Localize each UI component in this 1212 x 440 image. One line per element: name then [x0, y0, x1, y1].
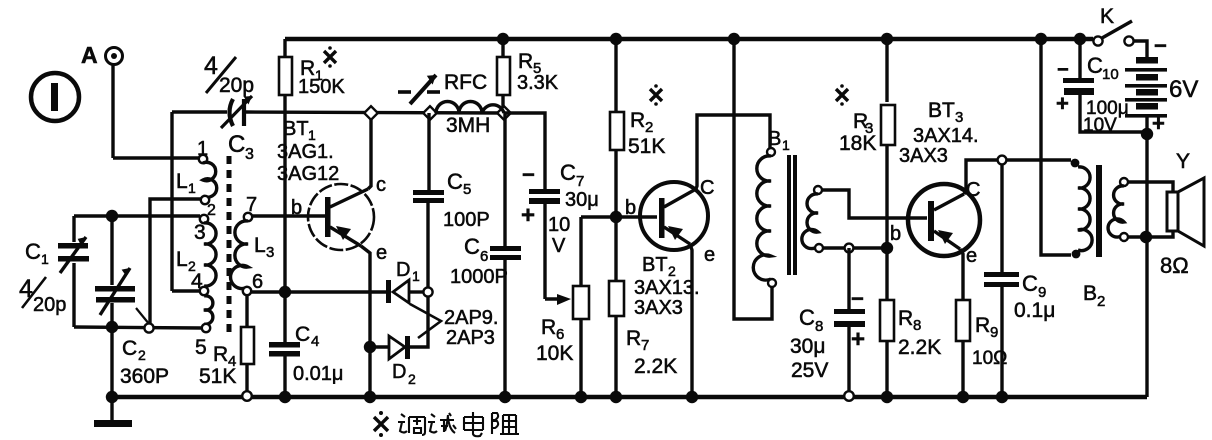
svg-text:7: 7 — [641, 337, 649, 354]
wire B1 secondary bottom line — [823, 246, 884, 249]
resistor R9 10 ohm — [956, 300, 1007, 397]
diode D2 2AP3 — [364, 296, 428, 387]
wire antenna node to L1 terminal 1 — [113, 156, 199, 159]
resistor R1 150K — [279, 39, 345, 292]
capacitor C1 variable — [19, 216, 89, 327]
inductor L1 — [176, 138, 217, 219]
diode D1 2AP9 — [251, 259, 424, 303]
capacitor C3 variable 4/20p — [204, 52, 254, 163]
node speaker return at battery rail — [1140, 231, 1152, 243]
svg-text:C: C — [464, 234, 480, 259]
wire C2 node down to ground bus — [110, 327, 113, 397]
inductor L3 with terminals 7 6 — [231, 194, 275, 295]
wire top bus — [285, 37, 1093, 41]
wire C4 column from R1 node — [283, 292, 286, 343]
svg-text:R: R — [898, 307, 913, 330]
transformer B1 core — [787, 155, 797, 275]
svg-text:L: L — [254, 234, 266, 257]
resistor R7 2.2K — [609, 217, 677, 397]
inductor RFC 3MH — [398, 71, 504, 137]
svg-text:360P: 360P — [120, 365, 169, 388]
svg-text:−: − — [851, 286, 864, 311]
transformer core dashed — [227, 156, 232, 338]
label pointer chevron for diodes — [410, 304, 498, 349]
wire BT1 emitter drop — [361, 246, 370, 397]
adjust mark R2 — [650, 84, 662, 106]
node C2 top junction — [106, 210, 118, 222]
resistor R8 2.2K — [880, 248, 941, 397]
svg-text:C: C — [25, 239, 41, 264]
svg-text:3AX14.: 3AX14. — [913, 125, 979, 147]
capacitor C2 variable 360P — [95, 216, 169, 388]
capacitor C10 100u electrolytic — [1056, 33, 1145, 136]
svg-text:2AP9.: 2AP9. — [444, 307, 498, 329]
node C2 bottom junction — [106, 321, 118, 333]
footnote text tiaoshi dianzu — [398, 412, 519, 436]
svg-text:R: R — [541, 316, 556, 339]
svg-text:C: C — [799, 305, 815, 330]
wire BT2 base line — [581, 215, 657, 218]
svg-text:Y: Y — [1176, 150, 1190, 173]
node BT2 emitter at bus — [686, 391, 698, 403]
svg-text:3: 3 — [955, 109, 963, 126]
svg-text:3AX13.: 3AX13. — [634, 277, 700, 299]
wire BT3 collector riser to B2 primary — [964, 160, 1071, 194]
capacitor C9 0.1u — [984, 164, 1055, 397]
svg-text:1000P: 1000P — [450, 266, 508, 288]
svg-text:B: B — [1083, 282, 1097, 305]
node R8 at bus — [881, 391, 893, 403]
svg-text:18K: 18K — [839, 132, 876, 155]
svg-text:0.1μ: 0.1μ — [1014, 299, 1055, 322]
svg-text:R: R — [213, 343, 228, 366]
svg-text:6: 6 — [480, 248, 488, 265]
svg-text:2.2K: 2.2K — [634, 355, 677, 378]
svg-text:b: b — [291, 197, 302, 219]
transformer B2 primary — [1071, 159, 1106, 310]
svg-text:51K: 51K — [199, 365, 236, 388]
wire C7 wiper arrow to R6 — [545, 294, 571, 305]
svg-text:C: C — [122, 337, 137, 360]
transistor BT2 3AX13 — [625, 177, 715, 319]
svg-text:B: B — [768, 128, 781, 150]
svg-text:3: 3 — [266, 244, 274, 261]
svg-text:30μ: 30μ — [565, 189, 599, 211]
svg-text:0.01μ: 0.01μ — [293, 363, 343, 385]
svg-text:150K: 150K — [298, 76, 345, 98]
resistor R2 51K — [610, 33, 666, 217]
ground — [94, 397, 132, 427]
node junction diamond RFC right — [497, 106, 511, 120]
svg-text:1: 1 — [197, 138, 208, 160]
inductor L2 with taps 3 4 5 — [176, 215, 216, 359]
svg-text:+: + — [851, 326, 865, 353]
svg-text:C: C — [1022, 271, 1038, 296]
svg-text:−: − — [1154, 33, 1167, 58]
svg-text:e: e — [966, 245, 977, 267]
svg-text:R: R — [626, 327, 641, 350]
svg-text:2: 2 — [138, 347, 146, 363]
svg-text:2AP3: 2AP3 — [446, 327, 495, 349]
svg-text:3: 3 — [194, 221, 206, 244]
svg-text:10: 10 — [548, 214, 570, 236]
svg-text:BT: BT — [642, 254, 668, 276]
svg-text:BT: BT — [283, 118, 309, 140]
svg-text:+: + — [1152, 111, 1165, 136]
wire collector line y112 — [172, 110, 227, 113]
capacitor C4 0.01u — [269, 323, 343, 397]
node L3 tap6 junction — [279, 286, 291, 298]
svg-text:1: 1 — [41, 251, 49, 267]
node B2 bus junction — [1035, 33, 1047, 45]
svg-text:R: R — [975, 314, 990, 337]
svg-text:+: + — [521, 202, 535, 229]
svg-text:9: 9 — [990, 324, 998, 341]
svg-text:30μ: 30μ — [790, 335, 825, 358]
wire B2 primary bottom to top bus — [1041, 39, 1071, 255]
svg-text:C: C — [966, 179, 980, 201]
svg-text:4: 4 — [191, 270, 203, 293]
svg-text:V: V — [552, 235, 566, 257]
svg-text:e: e — [704, 244, 715, 266]
wire BT2 emitter drop — [690, 244, 692, 397]
wire BT3 emitter drop — [960, 249, 963, 300]
svg-text:4: 4 — [19, 275, 33, 303]
wire C1 C2 bottom line to tap5 — [74, 327, 201, 328]
svg-text:C: C — [560, 160, 576, 185]
svg-text:20p: 20p — [219, 74, 254, 97]
wire BT2 collector riser to B1 primary — [696, 115, 770, 189]
transistor BT1 3AG1 — [252, 118, 387, 264]
capacitor C6 1000P — [450, 113, 521, 397]
svg-text:1: 1 — [188, 180, 196, 196]
svg-text:100P: 100P — [443, 209, 490, 231]
svg-text:7: 7 — [246, 194, 257, 216]
node R6 at bus — [575, 391, 587, 403]
svg-text:3MH: 3MH — [446, 114, 490, 137]
svg-text:b: b — [890, 223, 901, 245]
node R7 at bus — [610, 391, 622, 403]
svg-text:6: 6 — [252, 271, 263, 293]
resistor R4 51K — [199, 295, 254, 401]
svg-text:A: A — [81, 42, 98, 68]
svg-text:c: c — [376, 174, 386, 196]
node C9 tap open circle — [998, 156, 1007, 165]
svg-text:51K: 51K — [628, 135, 665, 158]
svg-text:−: − — [522, 162, 535, 187]
svg-text:20p: 20p — [33, 294, 66, 316]
wire bottom bus — [112, 395, 1147, 399]
svg-text:+: + — [1056, 91, 1069, 116]
wire B1 secondary top to BT3 base — [822, 190, 927, 218]
svg-text:5: 5 — [463, 181, 471, 198]
svg-text:R: R — [518, 50, 533, 73]
svg-text:7: 7 — [576, 173, 584, 190]
svg-text:3AX3: 3AX3 — [899, 145, 948, 167]
node C4 at bus — [279, 391, 291, 403]
node B1 bus junction — [728, 33, 740, 45]
node terminal2 drop open circle — [144, 323, 153, 332]
svg-text:3: 3 — [245, 146, 254, 163]
svg-text:2: 2 — [1097, 293, 1105, 310]
battery 6V — [1125, 33, 1198, 397]
wire BT1 collector riser — [368, 113, 371, 189]
svg-text:10V: 10V — [1083, 115, 1117, 136]
svg-text:e: e — [376, 242, 387, 264]
svg-text:6: 6 — [556, 326, 564, 343]
transformer B1 primary — [753, 128, 790, 287]
node R3 R8 junction — [881, 242, 893, 254]
transistor BT3 3AX14 — [890, 99, 980, 267]
wire B1 primary bottom to top bus — [734, 39, 772, 319]
node C8 tap open circle — [845, 244, 854, 253]
resistor R5 3.3K — [497, 33, 559, 108]
svg-text:3AX3: 3AX3 — [634, 297, 683, 319]
switch K — [1093, 5, 1133, 46]
svg-text:8: 8 — [913, 317, 921, 334]
loudspeaker Y 8ohm — [1128, 150, 1204, 278]
svg-text:25V: 25V — [791, 359, 828, 382]
svg-text:b: b — [625, 197, 636, 219]
svg-text:3AG1.: 3AG1. — [277, 141, 334, 163]
wire tap4 horizontal — [172, 289, 200, 292]
svg-text:C: C — [700, 177, 714, 199]
svg-text:−: − — [1057, 59, 1069, 81]
node R9 at bus — [957, 391, 969, 403]
node C6 at bus — [499, 391, 511, 403]
wire terminal2 to x150 drop — [150, 199, 202, 328]
wire node A riser x172 (C3 line to tap4) — [170, 112, 173, 291]
adjust mark R1 — [324, 46, 336, 68]
node C9 at bus — [996, 391, 1008, 403]
svg-text:R: R — [630, 109, 645, 132]
svg-text:L: L — [176, 170, 188, 193]
node D1 anode open circle — [423, 287, 432, 296]
antenna terminal A — [81, 42, 123, 68]
svg-text:4: 4 — [311, 333, 319, 350]
svg-text:4: 4 — [204, 52, 218, 80]
node junction diamond collector — [364, 106, 378, 120]
svg-text:2: 2 — [408, 371, 416, 387]
footnote adjust-resistor note — [374, 411, 388, 437]
svg-text:8: 8 — [815, 318, 823, 335]
svg-text:6V: 6V — [1169, 76, 1198, 103]
capacitor C8 30u electrolytic — [790, 248, 865, 401]
svg-text:1: 1 — [782, 137, 790, 153]
svg-text:1: 1 — [412, 268, 420, 284]
svg-text:2: 2 — [645, 119, 653, 136]
svg-text:BT: BT — [928, 99, 955, 122]
svg-text:10K: 10K — [536, 342, 573, 365]
svg-text:D: D — [396, 259, 410, 281]
transformer B1 secondary — [802, 186, 823, 252]
svg-text:5: 5 — [195, 336, 207, 359]
transformer B2 secondary — [1108, 178, 1128, 241]
node BT1 emitter at bus — [364, 391, 376, 403]
svg-text:C: C — [1087, 53, 1103, 78]
svg-text:2.2K: 2.2K — [898, 336, 941, 359]
node R2 R7 base junction — [610, 211, 622, 223]
svg-text:10: 10 — [1102, 66, 1119, 83]
capacitor C7 30u electrolytic — [504, 113, 599, 299]
capacitor C5 100P — [413, 113, 490, 288]
svg-text:L: L — [176, 248, 188, 271]
transformer B2 core — [1096, 165, 1102, 257]
node junction diamond C5 — [423, 106, 437, 120]
adjust mark R3 — [836, 84, 848, 106]
svg-text:3.3K: 3.3K — [517, 72, 559, 94]
svg-text:C: C — [228, 131, 245, 158]
svg-text:3AG12: 3AG12 — [277, 163, 339, 185]
svg-text:D: D — [392, 361, 406, 383]
wire C1 C2 top line to tap3 — [74, 214, 200, 217]
wire antenna stem down — [111, 65, 114, 158]
resistor R3 18K — [839, 33, 895, 248]
svg-text:C: C — [447, 169, 463, 194]
svg-text:RFC: RFC — [444, 71, 487, 94]
svg-text:C: C — [295, 323, 310, 346]
svg-text:K: K — [1100, 5, 1114, 28]
svg-text:8Ω: 8Ω — [1160, 253, 1189, 278]
figure marker circle 1 — [31, 73, 79, 121]
potentiometer R6 10K — [536, 217, 589, 397]
